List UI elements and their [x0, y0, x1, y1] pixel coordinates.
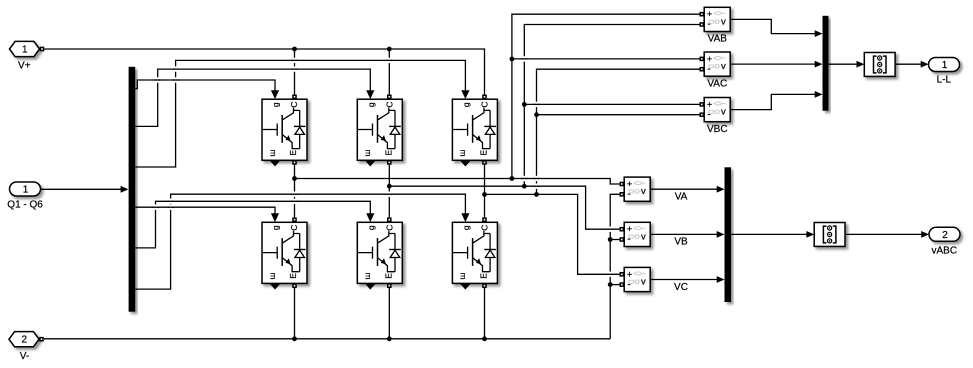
arrowhead gate g5 into block — [366, 213, 374, 222]
svg-text:-: - — [707, 109, 710, 120]
wire mux2 to selector — [731, 233, 807, 235]
wire VC out to mux — [650, 279, 717, 281]
wire phase A midpoint vertical — [294, 165, 296, 218]
svg-text:g: g — [461, 225, 471, 230]
wire crossover gaps — [157, 77, 159, 82]
svg-text:-: - — [627, 189, 630, 200]
svg-text:m: m — [268, 149, 278, 156]
mux bar for phase voltages — [725, 167, 732, 302]
node riser C foot — [534, 192, 539, 197]
voltage measurement block VAC — [704, 52, 730, 76]
svg-text:VAC: VAC — [707, 78, 727, 89]
svg-text:C: C — [289, 102, 299, 108]
wire gate g1 — [135, 80, 275, 92]
arrowhead into L-L port — [921, 61, 929, 68]
wire riser C to VAC- — [537, 69, 700, 194]
arrowhead VB into mux — [717, 231, 725, 238]
demux bus bar (gate signals) — [129, 67, 136, 312]
svg-text:E: E — [288, 273, 298, 279]
IGBT/Diode block Q2 — [357, 99, 402, 160]
wire gate g6 — [135, 194, 465, 289]
svg-text:m: m — [268, 273, 278, 280]
unconnected m-port arrow of Q4 — [270, 284, 280, 290]
svg-text:g: g — [461, 102, 471, 107]
svg-text:g: g — [271, 102, 281, 107]
svg-text:V-: V- — [20, 351, 29, 362]
arrowhead VA into mux — [717, 186, 725, 193]
svg-text:-: - — [627, 279, 630, 290]
node phase A tap — [292, 176, 297, 181]
arrowhead VAB into mux — [815, 30, 823, 37]
connection port V+ (conn 1) — [10, 41, 40, 56]
connection port V- (conn 2) — [9, 332, 39, 347]
node E4/V- junction — [292, 336, 297, 341]
svg-text:C: C — [384, 225, 394, 231]
svg-text:v: v — [721, 107, 726, 118]
svg-text:v: v — [721, 61, 726, 72]
block selector [⋮] for L-L — [864, 53, 895, 77]
node riser A branch — [510, 57, 515, 62]
mux bar for line voltages — [823, 16, 829, 111]
node riser B foot — [522, 184, 527, 189]
svg-text:E: E — [384, 150, 394, 156]
svg-text:v: v — [641, 277, 646, 288]
svg-text:1: 1 — [23, 185, 29, 196]
node VB- junction — [608, 237, 613, 242]
wire phase B midpoint vertical — [388, 165, 390, 218]
unconnected m-port arrow of Q6 — [461, 284, 471, 290]
wire selector to vABC port — [845, 233, 922, 235]
svg-text:+: + — [627, 224, 632, 234]
svg-text:v: v — [641, 186, 646, 197]
wire V- rail — [44, 338, 610, 340]
svg-text:VC: VC — [674, 282, 688, 293]
svg-text:2: 2 — [22, 335, 28, 346]
wire emitters to V- rail — [295, 288, 485, 339]
node E5/V- junction — [387, 336, 392, 341]
svg-text:C: C — [480, 102, 490, 108]
node V+/C1 junction — [292, 47, 297, 52]
svg-text:1: 1 — [22, 44, 28, 55]
wire VB- stub — [610, 239, 619, 241]
voltage measurement block VBC — [704, 98, 730, 122]
unconnected m-port arrow of Q1 — [270, 161, 280, 167]
wire V+ rail to collectors — [44, 49, 484, 94]
arrowhead gate g4 into block — [271, 213, 279, 222]
svg-text:+: + — [627, 269, 632, 279]
svg-text:-: - — [627, 234, 630, 245]
wire VA-/VB-/VC- common to V- — [610, 194, 619, 338]
wire gate g3 — [135, 60, 465, 167]
unconnected m-port arrow of Q5 — [365, 284, 375, 290]
arrowhead VAC into mux — [815, 61, 823, 68]
arrowhead gate g3 into block — [461, 90, 469, 99]
IGBT/Diode block Q3 — [452, 99, 497, 160]
svg-text:m: m — [364, 149, 374, 156]
svg-text:v: v — [641, 231, 646, 242]
V+ port square — [40, 47, 45, 52]
wire riser B to VAB- — [524, 25, 699, 187]
svg-text:VBC: VBC — [707, 124, 728, 135]
arrowhead gate g1 into block — [271, 90, 279, 99]
svg-text:E: E — [288, 150, 298, 156]
svg-text:1: 1 — [942, 60, 948, 71]
wire branch B to VBC+ — [524, 103, 699, 105]
svg-text:E: E — [479, 273, 489, 279]
svg-text:Q1 - Q6: Q1 - Q6 — [7, 200, 43, 211]
arrowhead into selector 1 — [857, 61, 865, 68]
svg-text:v: v — [721, 16, 726, 27]
wire Q1-Q6 to demux — [40, 188, 121, 190]
wire VAC out to mux — [730, 63, 815, 65]
IGBT/Diode block Q1 — [262, 99, 307, 160]
svg-text:m: m — [364, 273, 374, 280]
svg-text:+: + — [707, 9, 712, 19]
svg-text:VA: VA — [675, 192, 688, 203]
arrowhead into demux — [121, 186, 129, 193]
IGBT/Diode block Q4 — [262, 222, 307, 283]
V- port square — [39, 337, 44, 342]
node V+/C2 junction — [387, 47, 392, 52]
svg-text:VB: VB — [674, 237, 688, 248]
node phase B tap — [387, 184, 392, 189]
svg-text:+: + — [707, 54, 712, 64]
wire VB out to mux — [650, 233, 717, 235]
IGBT C/E connection squares — [292, 95, 297, 100]
svg-text:VAB: VAB — [708, 34, 728, 45]
voltage measurement block VC — [624, 267, 650, 291]
wire gate g2 — [135, 69, 370, 126]
wire gate g4 — [135, 207, 275, 215]
wire riser A to VAB+ — [512, 14, 700, 178]
svg-text:-: - — [707, 64, 710, 75]
wire VBC out to mux — [730, 94, 815, 109]
svg-text:g: g — [366, 102, 376, 107]
svg-text:C: C — [384, 102, 394, 108]
wire VC- stub — [610, 284, 619, 286]
arrowhead gate g2 into block — [366, 90, 374, 99]
arrowhead gate g6 into block — [461, 213, 469, 222]
voltage measurement block VB — [624, 222, 650, 246]
arrowhead into vABC port — [921, 231, 929, 238]
node VC- junction — [608, 282, 613, 287]
wire phase C midpoint vertical — [484, 165, 486, 218]
wire phase C tap to VC+ — [485, 194, 620, 274]
unconnected m-port arrow of Q3 — [461, 161, 471, 167]
node riser A foot — [510, 176, 515, 181]
svg-text:C: C — [480, 225, 490, 231]
svg-text:+: + — [627, 179, 632, 189]
unconnected m-port arrow of Q2 — [365, 161, 375, 167]
svg-text:g: g — [271, 225, 281, 230]
wire VA out to mux — [650, 188, 717, 190]
svg-text:g: g — [366, 225, 376, 230]
wire branch C to VBC- — [537, 114, 700, 116]
node riser C branch — [534, 112, 539, 117]
port outport 1 L-L — [929, 58, 960, 72]
node riser B branch — [522, 102, 527, 107]
svg-text:C: C — [289, 225, 299, 231]
svg-text:-: - — [707, 19, 710, 30]
svg-text:V+: V+ — [18, 61, 31, 72]
svg-text:m: m — [459, 273, 469, 280]
svg-text:E: E — [384, 273, 394, 279]
wire phase A tap to VA+ — [295, 179, 620, 185]
node E6/V- junction — [482, 336, 487, 341]
svg-text:m: m — [459, 149, 469, 156]
svg-text:2: 2 — [942, 230, 948, 241]
voltage measurement block VA — [624, 177, 650, 201]
port outport 2 vABC — [929, 227, 960, 241]
block selector [⋮] for vABC — [814, 223, 845, 247]
arrowhead VBC into mux — [815, 91, 823, 98]
arrowhead VC into mux — [717, 276, 725, 283]
port inport 1 Q1 - Q6 — [10, 182, 41, 196]
IGBT/Diode block Q5 — [357, 222, 402, 283]
svg-text:vABC: vABC — [932, 245, 958, 256]
wire branch A to VAC+ — [512, 58, 700, 60]
wire mux1 to selector — [829, 63, 858, 65]
wire VAB out to mux — [730, 19, 815, 33]
wire gate g5 — [135, 201, 370, 248]
IGBT/Diode block Q6 — [452, 222, 497, 283]
node phase C tap — [482, 192, 487, 197]
voltage measurement block VAB — [704, 7, 730, 31]
wire phase B tap to VB+ — [389, 186, 619, 229]
wire selector to L-L port — [895, 63, 921, 65]
svg-text:L-L: L-L — [937, 74, 952, 85]
svg-text:E: E — [479, 150, 489, 156]
arrowhead into selector 2 — [806, 231, 814, 238]
svg-text:+: + — [707, 99, 712, 109]
